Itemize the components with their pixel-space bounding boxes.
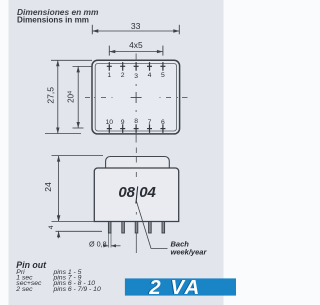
front pin 3 — [135, 222, 138, 234]
diameter 0,8 arrows — [103, 244, 121, 247]
svg-text:3: 3 — [134, 73, 138, 80]
front pin 2 — [122, 222, 125, 234]
svg-text:9: 9 — [121, 119, 125, 126]
dimension 4 extension lines — [52, 221, 103, 231]
blue banner 2 VA — [125, 278, 236, 295]
date code separator bar — [136, 186, 138, 203]
pin 2 cross — [120, 62, 125, 71]
svg-text:04: 04 — [139, 184, 156, 201]
front pin 5 — [162, 222, 165, 234]
svg-text:24: 24 — [43, 182, 53, 192]
pin 3 cross — [134, 62, 139, 71]
pin 5 cross — [160, 62, 165, 71]
pin 8 cross — [134, 124, 139, 133]
svg-text:10: 10 — [106, 119, 114, 126]
pin 1 cross — [107, 62, 112, 71]
svg-text:1: 1 — [107, 72, 111, 79]
svg-text:8: 8 — [134, 118, 138, 125]
top view vertical centerline — [135, 54, 137, 143]
pin 4 cross — [147, 62, 152, 71]
dimension 27,5 — [56, 60, 59, 133]
pin out row Pri — [16, 269, 81, 276]
dimension 4x5 — [109, 46, 163, 56]
pin 10 cross — [107, 124, 112, 133]
pin numbers 1-5 — [107, 72, 165, 80]
scanned page grey background — [9, 0, 224, 305]
top view horizontal centerline — [85, 97, 188, 99]
leader line to date code — [136, 201, 167, 249]
svg-text:6: 6 — [161, 119, 165, 126]
svg-text:Ø 0,8: Ø 0,8 — [89, 240, 107, 249]
front pin 4 — [149, 222, 152, 234]
svg-text:pins 6 - 7/9 - 10: pins 6 - 7/9 - 10 — [53, 286, 101, 293]
diameter 0,8 pin edge extension lines — [108, 233, 111, 248]
front view bobbin top — [106, 157, 170, 169]
pin 7 cross — [147, 124, 152, 133]
svg-text:2 sec: 2 sec — [15, 286, 33, 293]
front view body — [94, 168, 178, 222]
svg-text:week/year: week/year — [171, 247, 208, 256]
transformer top view outer outline — [92, 60, 180, 134]
svg-text:Dimensions in mm: Dimensions in mm — [17, 16, 89, 25]
svg-text:4: 4 — [48, 225, 55, 229]
pin out row sec+sec — [16, 280, 95, 287]
svg-text:33: 33 — [131, 21, 141, 31]
pin out row 1 sec — [16, 275, 81, 282]
front view vertical centerline — [135, 148, 137, 254]
dimension 24 — [57, 156, 60, 222]
svg-text:4: 4 — [148, 72, 152, 79]
dimension 20.4 — [77, 66, 80, 128]
dimension 27,5 extension lines — [45, 60, 92, 133]
svg-text:2: 2 — [121, 72, 125, 79]
pin 9 cross — [120, 124, 125, 133]
svg-text:7: 7 — [148, 119, 152, 126]
front pin 1 — [108, 222, 111, 234]
svg-text:27,5: 27,5 — [46, 87, 56, 104]
dimension 24 extension line — [52, 155, 104, 157]
top view center cross — [131, 92, 142, 103]
pin out row 2 sec — [15, 286, 101, 293]
svg-text:4x5: 4x5 — [129, 40, 143, 50]
transformer top view inner outline — [95, 63, 176, 131]
svg-text:5: 5 — [161, 72, 165, 79]
svg-text:08: 08 — [118, 184, 135, 201]
dimension 20.4 extension lines — [73, 66, 93, 128]
dimension 4 arrows — [57, 214, 60, 239]
dimension 33 — [92, 25, 179, 35]
svg-text:2 VA: 2 VA — [148, 276, 201, 299]
pin numbers 10-6 — [106, 118, 165, 126]
pin 6 cross — [160, 124, 165, 133]
